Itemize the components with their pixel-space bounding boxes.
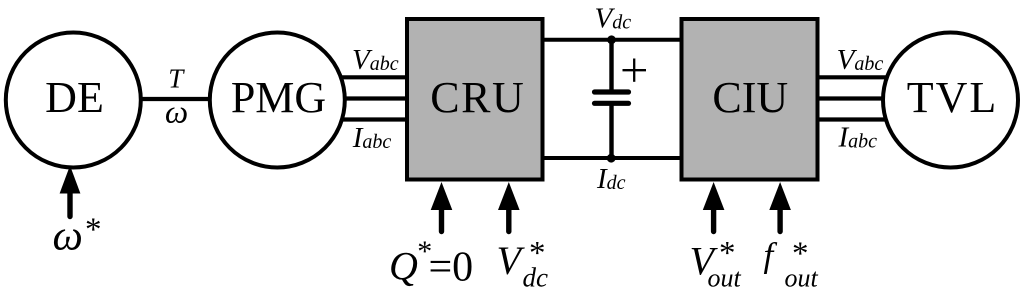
block PMG (permanent magnet generator): [210, 33, 345, 168]
wire DE to PMG (torque shaft): [138, 97, 212, 101]
capacitor C bottom plate: [595, 101, 629, 106]
wire DC bus positive rail: [540, 38, 684, 42]
block TVL (three-phase variable load): [883, 33, 1018, 168]
arrow omega* into DE: [60, 166, 81, 217]
wire 3-phase PMG to CRU middle: [330, 96, 410, 100]
node Vdc junction dot: [607, 35, 616, 44]
wire 3-phase CIU to TVL bottom: [815, 117, 892, 121]
svg-text:ω: ω: [165, 95, 188, 131]
wire 3-phase CIU to TVL middle: [815, 96, 892, 100]
svg-text:=0: =0: [429, 245, 474, 291]
arrow Q*=0 into CRU: [431, 182, 453, 232]
node Idc junction dot: [607, 154, 616, 163]
arrow fout* into CIU: [769, 182, 791, 232]
wire DC bus negative rail: [540, 156, 684, 160]
wire 3-phase PMG to CRU top: [330, 75, 410, 79]
wire 3-phase PMG to CRU bottom: [330, 117, 410, 121]
block CIU: [682, 19, 818, 180]
polarity plus sign: [623, 59, 647, 82]
svg-text:CIU: CIU: [712, 73, 788, 122]
arrow Vdc* into CRU: [498, 182, 520, 232]
svg-text:CRU: CRU: [430, 73, 525, 122]
svg-text:out: out: [785, 264, 819, 293]
wire capacitor bottom lead: [609, 105, 613, 158]
svg-text:DE: DE: [45, 73, 104, 122]
svg-text:PMG: PMG: [231, 73, 326, 122]
svg-text:Q: Q: [389, 244, 418, 289]
svg-text:dc: dc: [523, 263, 549, 293]
block CRU: [407, 19, 543, 180]
svg-text:out: out: [708, 263, 742, 292]
svg-text:TVL: TVL: [907, 73, 999, 122]
svg-text:ω: ω: [53, 213, 83, 260]
block DE (diesel engine): [6, 33, 141, 168]
arrow Vout* into CIU: [703, 182, 725, 232]
wire 3-phase CIU to TVL top: [815, 75, 892, 79]
capacitor C top plate: [595, 89, 629, 94]
svg-text:*: *: [85, 212, 102, 248]
wire capacitor top lead: [609, 40, 613, 90]
svg-text:T: T: [168, 64, 185, 94]
